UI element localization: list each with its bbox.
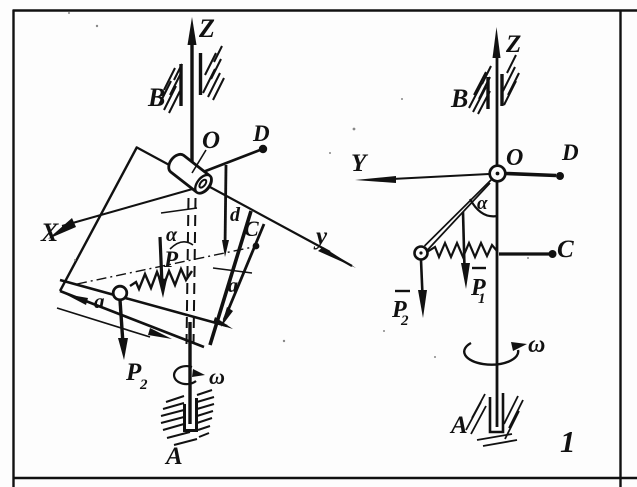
svg-text:C: C	[557, 236, 574, 263]
X axis	[62, 188, 196, 226]
bearing A right: hatching	[466, 394, 523, 446]
line OD right	[506, 174, 556, 176]
angle alpha arc left	[170, 242, 193, 249]
svg-text:B: B	[147, 83, 165, 112]
thin line rod extension to C	[213, 268, 252, 273]
dashed shaft axis behind plate (double dashed line)	[187, 198, 196, 344]
pivot O right	[490, 166, 506, 182]
point C right	[549, 250, 557, 258]
Y axis right	[392, 174, 489, 179]
plate right edge (thick)	[210, 211, 251, 345]
angular velocity omega right: arc	[464, 343, 518, 365]
force P2 left arrow	[120, 300, 123, 344]
bearing A right: slot	[490, 393, 503, 432]
plate left edge	[60, 147, 137, 291]
svg-text:P: P	[163, 247, 179, 272]
y axis arrowhead	[318, 247, 356, 268]
svg-text:2: 2	[139, 377, 148, 393]
ball (mass) right	[415, 247, 428, 260]
svg-text:ω: ω	[528, 332, 545, 358]
right side dimension a line	[224, 224, 264, 320]
svg-text:1: 1	[560, 424, 576, 459]
force P2 right	[421, 260, 423, 295]
lower shaft left	[188, 322, 191, 424]
svg-text:C: C	[244, 216, 259, 241]
svg-text:O: O	[202, 127, 220, 154]
svg-text:1: 1	[478, 291, 486, 307]
bearing A left: slot	[185, 398, 197, 431]
shaft upper (Z axis)	[188, 17, 197, 166]
line OD left	[203, 150, 260, 172]
arrow lower mid	[148, 328, 172, 339]
svg-text:A: A	[164, 443, 183, 470]
rod OB right (double line)	[425, 179, 493, 251]
svg-text:D: D	[252, 121, 270, 146]
force P1 right	[463, 212, 465, 268]
dash-dot pointer line to C	[77, 247, 253, 284]
label P2 right with bar	[395, 290, 410, 292]
rod through ball	[60, 280, 227, 326]
svg-text:O: O	[506, 145, 523, 171]
svg-text:a: a	[228, 275, 238, 297]
svg-text:Z: Z	[198, 14, 215, 43]
svg-text:A: A	[449, 412, 468, 439]
svg-text:B: B	[450, 84, 468, 113]
svg-text:2: 2	[400, 313, 409, 329]
force P1 left arrow	[160, 237, 162, 284]
shaft (Z axis) right	[496, 50, 499, 427]
svg-text:Z: Z	[505, 31, 521, 58]
bearing B right: hatching	[469, 55, 519, 114]
scan specks	[68, 12, 529, 358]
dimension a bottom-left: parallel line	[57, 308, 150, 337]
bearing B left: slot bars	[181, 53, 201, 106]
svg-text:Y: Y	[351, 150, 369, 177]
svg-text:D: D	[561, 140, 579, 165]
angle alpha reference tick	[161, 208, 197, 213]
cylinder sleeve at O	[165, 151, 215, 196]
point D left	[259, 145, 267, 153]
spring left	[130, 269, 192, 289]
svg-text:d: d	[230, 204, 241, 226]
line OC right	[499, 252, 549, 255]
svg-text:ω: ω	[209, 364, 225, 389]
angular velocity omega left: arc	[174, 366, 196, 384]
point C left	[253, 243, 260, 250]
label P1 right with bar	[472, 267, 486, 269]
arrow on bottom edge near corner	[65, 294, 88, 305]
angle alpha arc right	[470, 199, 498, 216]
svg-text:α: α	[166, 224, 178, 246]
svg-text:α: α	[477, 193, 488, 214]
bearing B left: hatching	[159, 46, 224, 113]
spring right	[427, 243, 497, 257]
bearing B right: slot bars	[488, 74, 502, 109]
bearing A left: hatching	[161, 390, 214, 445]
point D right	[556, 172, 564, 180]
plate bottom edge	[60, 291, 204, 347]
svg-text:y: y	[313, 223, 328, 250]
plate top edge merging into y axis	[136, 147, 330, 252]
svg-text:X: X	[40, 218, 59, 247]
svg-text:a: a	[94, 289, 105, 313]
dimension d arrow (vertical)	[225, 165, 226, 248]
ball (mass) left	[113, 286, 127, 300]
